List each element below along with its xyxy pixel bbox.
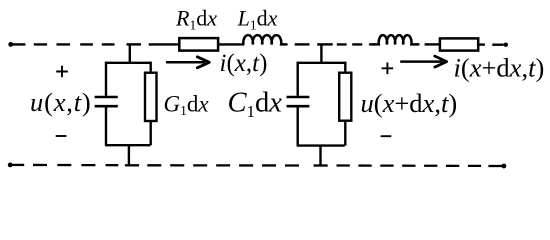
node: bottom-left terminal dot — [8, 163, 13, 168]
wire: second shunt bottom bar — [297, 144, 345, 146]
wire: capacitor C lead top (branch 1) — [105, 62, 107, 96]
resistor G1 (box) — [145, 73, 157, 121]
wire: capacitor lead bottom (branch 1) — [105, 108, 107, 146]
wire: stub from node B down to second shunt pair — [320, 44, 322, 62]
wire: G lead bottom (branch 2) — [344, 121, 346, 146]
arrow: current i(x,t) — [166, 61, 205, 64]
node A: top junction of first shunt branch — [127, 43, 142, 45]
label -: polarity minus (branch 1) — [56, 135, 67, 137]
wire: bottom rail final dash — [488, 165, 502, 167]
wire: G1 lead top — [149, 62, 151, 73]
wire: stub from first shunt down to bottom rail — [128, 145, 130, 165]
wire: G lead top (branch 2) — [344, 62, 346, 73]
label +: polarity plus (branch 2) — [382, 63, 394, 75]
wire: G1 lead bottom — [149, 121, 151, 145]
wire: top rail segment after R2 — [478, 43, 485, 45]
wire: second shunt top bar — [298, 62, 346, 64]
wire: top rail dashed run from left terminal to node A — [11, 43, 122, 45]
wire: top rail between R1 and L1 — [218, 43, 243, 45]
resistor G box (branch 2, unlabeled) — [339, 73, 351, 121]
wire: capacitor C1 lead top (branch 2) — [297, 62, 299, 96]
wire: top rail final dash — [492, 44, 503, 46]
resistor R2 (box, unlabeled) — [440, 38, 478, 50]
node: top-left terminal dot — [8, 42, 13, 47]
wire: stub from second shunt down to bottom rail — [319, 146, 321, 166]
wire: bottom rail dashed run right — [337, 164, 482, 167]
label +: polarity plus (branch 1) — [56, 66, 68, 78]
arrow: current i(x+dx,t) — [400, 60, 442, 63]
svg-text:R1dx: R1dx — [175, 6, 217, 33]
inductor L1 (4 humps) — [243, 35, 286, 44]
inductor L2 (4 humps) — [370, 35, 418, 44]
label -: polarity minus (branch 2) — [381, 135, 392, 137]
svg-text:C1dx: C1dx — [228, 88, 283, 122]
wire: top rail dashes between node B and L2 — [337, 43, 363, 45]
node B: top junction of second shunt branch — [317, 43, 333, 45]
wire: bottom rail dashed run left — [10, 164, 122, 167]
svg-text:u(x,t): u(x,t) — [30, 87, 91, 117]
wire: bottom rail dashed run middle — [147, 164, 307, 166]
svg-text:L1dx: L1dx — [237, 6, 278, 33]
wire: top rail solid segment into R1 — [149, 43, 180, 45]
node: top-right terminal dot — [504, 43, 508, 47]
wire: top rail segment into R2 — [425, 43, 440, 45]
svg-text:u(x+dx,t): u(x+dx,t) — [361, 88, 458, 118]
wire: first shunt top bar — [106, 62, 151, 64]
node D: bottom junction of second shunt branch — [314, 164, 328, 166]
resistor R1 (box) — [179, 38, 218, 51]
node C: bottom junction of first shunt branch — [125, 164, 139, 166]
capacitor C1 plates (branch 2) — [287, 97, 310, 106]
svg-text:i(x+dx,t): i(x+dx,t) — [454, 53, 545, 83]
node: bottom-right terminal dot — [502, 164, 507, 169]
capacitor (branch 1) plates — [95, 97, 118, 106]
svg-text:i(x,t): i(x,t) — [220, 50, 268, 77]
wire: stub from node A down to first shunt pair — [129, 44, 131, 62]
wire: capacitor C1 lead bottom (branch 2) — [297, 108, 299, 146]
wire: top rail dash between L1 and node B — [295, 43, 310, 45]
wire: first shunt bottom bar — [105, 144, 151, 146]
svg-text:G1dx: G1dx — [164, 91, 210, 118]
